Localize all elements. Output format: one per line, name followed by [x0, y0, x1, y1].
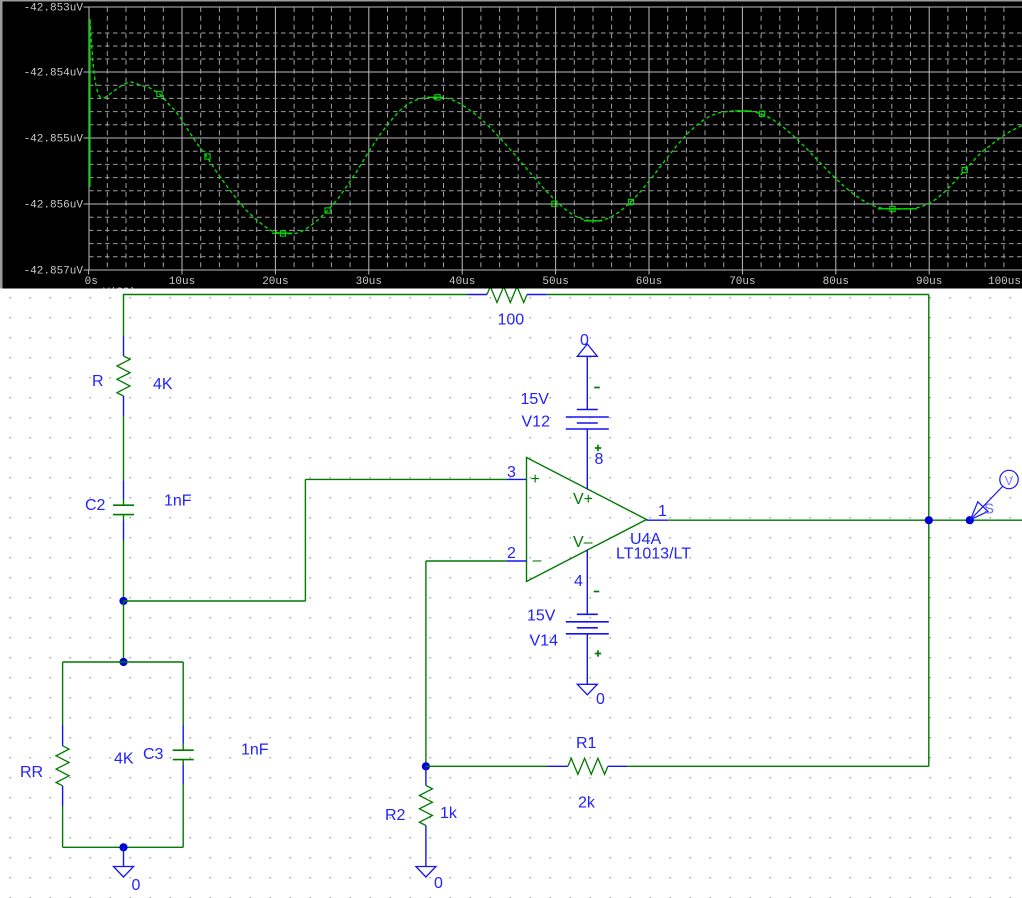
svg-text:V–: V–: [573, 534, 593, 551]
svg-text:LT1013/LT: LT1013/LT: [616, 546, 691, 563]
svg-text:0: 0: [434, 875, 443, 892]
svg-text:70us: 70us: [729, 276, 755, 288]
svg-text:V14: V14: [530, 633, 559, 650]
svg-text:60us: 60us: [636, 276, 662, 288]
svg-text:10us: 10us: [169, 276, 195, 288]
svg-text:8: 8: [595, 451, 604, 468]
svg-text:100us: 100us: [988, 276, 1021, 288]
svg-text:C3: C3: [143, 746, 164, 763]
svg-text:2: 2: [507, 545, 516, 562]
svg-text:4K: 4K: [153, 376, 173, 393]
svg-text:1k: 1k: [440, 805, 458, 822]
svg-text:4: 4: [574, 573, 583, 590]
svg-text:30us: 30us: [356, 276, 382, 288]
svg-text:0s: 0s: [85, 276, 98, 288]
svg-text:1: 1: [658, 503, 667, 520]
svg-text:15V: 15V: [521, 391, 550, 408]
svg-text:–: –: [533, 552, 542, 569]
svg-text:2k: 2k: [578, 795, 596, 812]
svg-text:S: S: [984, 501, 994, 518]
svg-text:C2: C2: [85, 497, 106, 514]
svg-text:1nF: 1nF: [164, 493, 192, 510]
svg-text:-42.857uV: -42.857uV: [24, 266, 84, 278]
svg-text:4K: 4K: [114, 751, 134, 768]
svg-text:-42.856uV: -42.856uV: [24, 200, 84, 212]
svg-text:-42.855uV: -42.855uV: [24, 134, 84, 146]
svg-text:50us: 50us: [542, 276, 568, 288]
svg-text:V+: V+: [573, 491, 593, 508]
svg-text:80us: 80us: [823, 276, 849, 288]
svg-text:RR: RR: [20, 764, 43, 781]
svg-text:15V: 15V: [527, 608, 556, 625]
svg-text:100: 100: [498, 312, 525, 329]
svg-text:40us: 40us: [449, 276, 475, 288]
svg-text:R1: R1: [576, 735, 597, 752]
svg-text:90us: 90us: [916, 276, 942, 288]
svg-text:V12: V12: [522, 414, 551, 431]
svg-text:V: V: [1005, 473, 1014, 488]
svg-text:1nF: 1nF: [241, 742, 269, 759]
svg-text:+: +: [531, 471, 540, 488]
svg-text:R: R: [92, 373, 104, 390]
svg-text:0: 0: [596, 691, 605, 708]
svg-text:-42.854uV: -42.854uV: [24, 68, 84, 80]
svg-text:-42.853uV: -42.853uV: [24, 3, 84, 15]
svg-text:20us: 20us: [262, 276, 288, 288]
svg-text:R2: R2: [385, 807, 406, 824]
svg-text:0: 0: [132, 877, 141, 894]
svg-text:3: 3: [507, 464, 516, 481]
